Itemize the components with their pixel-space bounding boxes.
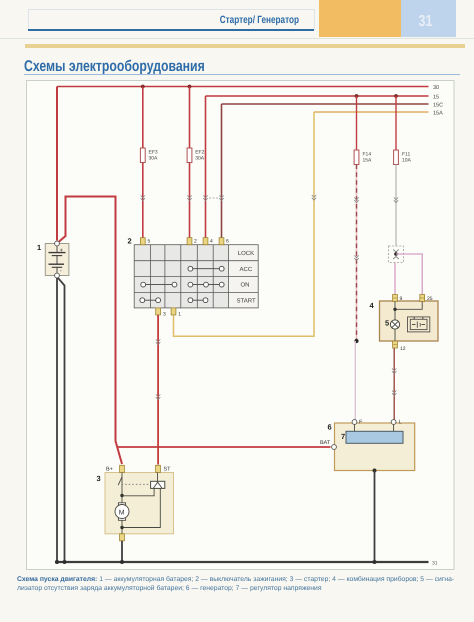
terminal F <box>352 420 357 425</box>
voltage regulator box <box>346 431 403 443</box>
junction dot starter bottom <box>120 526 123 529</box>
warning lamp HL <box>390 320 399 329</box>
svg-text:ON: ON <box>241 282 250 289</box>
svg-text:6: 6 <box>226 239 229 245</box>
svg-text:5: 5 <box>385 319 389 328</box>
svg-text:2: 2 <box>128 237 132 246</box>
instrument cluster box <box>380 301 439 341</box>
junction on bus 15 at F14 <box>355 94 359 98</box>
fuse EF2 30A <box>187 148 192 163</box>
svg-text:9: 9 <box>400 296 403 302</box>
svg-text:30A: 30A <box>149 156 159 162</box>
terminal L <box>391 420 396 425</box>
starter ground connector <box>120 534 125 541</box>
svg-text:B+: B+ <box>106 467 113 473</box>
switch contacts row START <box>140 298 208 303</box>
wire: battery to starter B+ feed <box>59 197 123 465</box>
svg-text:ST: ST <box>164 467 172 473</box>
pin 25 connector <box>420 295 425 302</box>
wire: bus 15A <box>314 111 429 113</box>
wire: bus 15C drop to pin 6 <box>221 104 223 238</box>
junction dot generator ground <box>373 469 377 473</box>
wire: F14 drop <box>356 96 358 150</box>
ground junction starter <box>120 560 124 564</box>
junction dot cluster <box>393 308 396 311</box>
starter internal wiring <box>118 473 160 534</box>
terminal BAT <box>332 445 337 450</box>
battery warning icon <box>408 317 430 332</box>
svg-text:15A: 15A <box>433 111 443 117</box>
svg-text:7: 7 <box>341 432 345 441</box>
wire: splice to pin 25 <box>396 254 422 297</box>
ignition switch position labels <box>237 250 256 305</box>
fuse F11 10A <box>394 150 399 165</box>
svg-text:-: - <box>60 269 62 275</box>
ground junction battery left <box>55 560 59 564</box>
battery internal symbol <box>49 246 66 273</box>
connector mark on F11 wire <box>394 197 398 202</box>
wire: splice to pin 9 <box>394 263 396 297</box>
connector mark on F14 wire lower <box>354 255 358 260</box>
wire: bus 30 <box>57 86 429 88</box>
svg-text:15A: 15A <box>363 158 373 164</box>
connector mark on ST wire lower <box>156 394 160 399</box>
connector mark on EF3 wire <box>141 195 145 200</box>
starter ST connector <box>156 465 161 472</box>
connector mark on L wire lower <box>392 390 396 395</box>
wire: battery negative left <box>56 278 58 562</box>
connector mark on EF2 wire <box>187 195 191 200</box>
wire: splice to generator F <box>354 341 356 420</box>
connector mark on 15A wire <box>312 195 316 200</box>
svg-text:M: M <box>119 509 125 516</box>
svg-text:BAT: BAT <box>320 440 331 446</box>
switch contacts row ON <box>141 282 224 287</box>
svg-text:15C: 15C <box>433 103 443 109</box>
svg-text:10A: 10A <box>402 158 412 164</box>
wire: F11 drop <box>395 96 397 150</box>
junction on bus 30 at EF2 <box>188 85 192 89</box>
ground bus 31 <box>55 561 429 563</box>
motor M circle <box>115 505 129 519</box>
diagram frame <box>27 81 455 570</box>
starter B+ connector <box>120 465 125 472</box>
connector mark on pin6 wire <box>219 195 223 200</box>
cluster internal wiring <box>395 302 422 342</box>
junction on bus 30 at EF3 <box>141 85 145 89</box>
svg-text:4: 4 <box>210 239 213 245</box>
generator G1 box <box>335 423 415 471</box>
wire: F11 output <box>395 165 397 247</box>
svg-text:6: 6 <box>328 423 332 432</box>
svg-text:2: 2 <box>194 239 197 245</box>
pin 12 connector <box>393 341 398 348</box>
dashed connector link <box>209 197 219 199</box>
battery GB1 box <box>45 244 69 276</box>
svg-text:25: 25 <box>427 296 433 302</box>
pin 4 connector <box>203 238 208 245</box>
junction splice dot F14 wire <box>354 339 358 343</box>
ground junction generator <box>373 560 377 564</box>
pin 6 connector <box>219 238 224 245</box>
wire: F14 output dashed <box>356 165 358 341</box>
wire: battery positive feed from bus 30 <box>56 87 58 241</box>
wire: bus 15 drop to pin 4 <box>205 96 207 238</box>
svg-text:3: 3 <box>97 474 101 483</box>
svg-text:L: L <box>399 420 402 426</box>
ignition switch U2 table <box>134 245 258 308</box>
pin 5 connector <box>140 238 145 245</box>
wire: generator to ground <box>374 471 376 563</box>
svg-text:+: + <box>60 248 64 254</box>
junction dot starter top <box>120 494 123 497</box>
svg-text:12: 12 <box>400 346 406 352</box>
pin 9 connector <box>393 295 398 302</box>
pin 1 connector <box>171 308 176 315</box>
splice box on F11 wire <box>389 246 404 263</box>
svg-text:1: 1 <box>178 312 181 318</box>
junction on bus 15 at F11 <box>394 94 398 98</box>
switch contacts row ACC <box>188 266 224 271</box>
connector mark on ST wire upper <box>156 339 160 344</box>
connector mark on pin4 wire <box>203 195 207 200</box>
wire: pin 12 to generator L <box>393 348 395 420</box>
wire: bus 15 <box>206 95 429 97</box>
svg-text:31: 31 <box>432 561 438 567</box>
connector mark on F14 wire upper <box>354 197 358 202</box>
wire: pin 3 to starter ST <box>157 315 159 465</box>
generator internal wires <box>355 424 394 431</box>
svg-text:1: 1 <box>37 243 41 252</box>
wire: B+ to generator BAT <box>117 446 331 448</box>
pin 3 connector <box>156 308 161 315</box>
svg-text:15: 15 <box>433 95 439 101</box>
wire: battery negative to engine ground <box>58 278 65 562</box>
wire: EF3 drop <box>142 87 144 238</box>
svg-text:5: 5 <box>148 239 151 245</box>
ground junction battery right <box>63 560 67 564</box>
battery bottom terminal <box>55 273 60 278</box>
svg-text:START: START <box>237 298 256 305</box>
wire: bus 15C <box>222 103 429 105</box>
starter M1 box <box>105 473 174 534</box>
battery top terminal <box>55 241 60 246</box>
wire: bus 15A drop and run to ignition pin 1 <box>174 112 315 336</box>
pin 2 connector <box>187 238 192 245</box>
starter solenoid relay <box>151 481 165 488</box>
svg-text:LOCK: LOCK <box>238 250 254 257</box>
svg-text:30A: 30A <box>195 156 205 162</box>
fuse F14 15A <box>354 150 359 165</box>
wire: starter to ground <box>121 541 123 562</box>
svg-text:3: 3 <box>163 312 166 318</box>
wire: EF2 drop <box>189 87 191 238</box>
fuse EF3 30A <box>140 148 145 163</box>
motor M brushes <box>118 503 125 507</box>
junction dot in splice box <box>394 252 398 256</box>
svg-text:ACC: ACC <box>240 266 253 273</box>
connector mark on L wire upper <box>392 368 396 373</box>
svg-text:30: 30 <box>433 85 439 91</box>
